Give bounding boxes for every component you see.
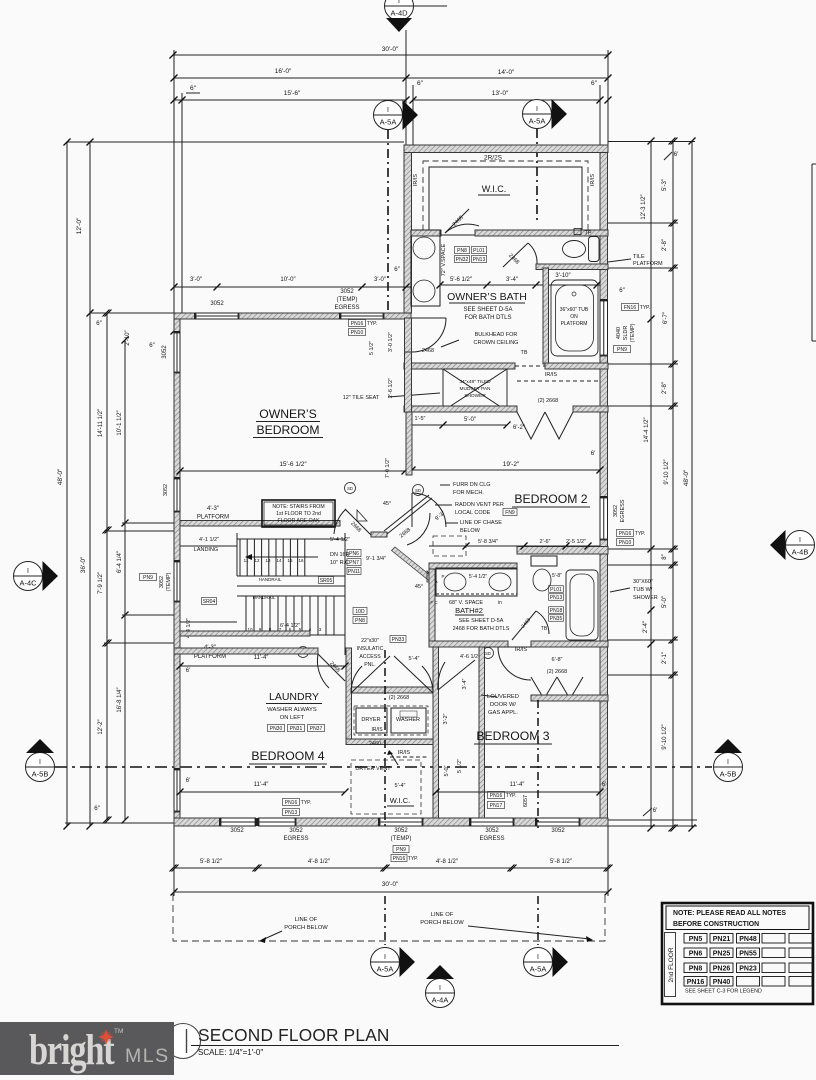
svg-text:9′-10 1/2″: 9′-10 1/2″ xyxy=(664,458,670,484)
svg-text:P: P xyxy=(441,574,444,579)
svg-text:PLATFORM: PLATFORM xyxy=(197,515,229,521)
svg-text:2′-1″: 2′-1″ xyxy=(662,651,668,664)
svg-text:EGRESS: EGRESS xyxy=(283,836,308,842)
svg-text:PORCH BELOW: PORCH BELOW xyxy=(284,925,328,931)
svg-text:TB: TB xyxy=(541,626,548,632)
svg-text:PN9: PN9 xyxy=(396,847,406,853)
svg-text:BEDROOM 3: BEDROOM 3 xyxy=(476,729,549,743)
svg-text:13′-0″: 13′-0″ xyxy=(492,90,509,97)
svg-text:12′-3 1/2″: 12′-3 1/2″ xyxy=(641,193,647,219)
svg-text:HANDRAIL: HANDRAIL xyxy=(259,577,282,582)
svg-text:IR/IS: IR/IS xyxy=(545,372,558,378)
svg-text:3′-4″: 3′-4″ xyxy=(462,678,468,689)
svg-text:EGRESS: EGRESS xyxy=(620,499,626,522)
svg-text:7′-0 1/2″: 7′-0 1/2″ xyxy=(385,458,391,478)
svg-text:3′-0 1/2″: 3′-0 1/2″ xyxy=(388,332,394,352)
svg-text:3052: 3052 xyxy=(210,301,224,307)
svg-text:SD: SD xyxy=(485,651,491,656)
svg-text:30′-0″: 30′-0″ xyxy=(382,46,399,53)
svg-text:5′-4″: 5′-4″ xyxy=(395,783,406,789)
svg-text:10″ R.C.: 10″ R.C. xyxy=(330,560,351,566)
svg-text:2′-8″: 2′-8″ xyxy=(662,238,668,251)
svg-text:3052: 3052 xyxy=(159,576,165,588)
svg-text:3052: 3052 xyxy=(340,289,354,295)
svg-text:45°: 45° xyxy=(415,584,423,590)
svg-text:5′-8″: 5′-8″ xyxy=(552,573,562,579)
svg-text:ACCESS: ACCESS xyxy=(359,654,381,660)
svg-text:A-5A: A-5A xyxy=(529,117,546,126)
svg-text:DRYER VENT: DRYER VENT xyxy=(355,766,391,772)
svg-text:TYP.: TYP. xyxy=(301,800,311,806)
svg-text:12′-2″: 12′-2″ xyxy=(98,718,104,734)
svg-text:48′-0″: 48′-0″ xyxy=(57,468,64,485)
svg-text:PN16: PN16 xyxy=(687,979,705,986)
svg-text:LINE OF: LINE OF xyxy=(295,917,318,923)
svg-text:TYP.: TYP. xyxy=(506,793,516,799)
svg-text:A-4B: A-4B xyxy=(792,548,809,557)
svg-text:OWNER’S BATH: OWNER’S BATH xyxy=(447,291,527,303)
svg-text:30″X60″: 30″X60″ xyxy=(633,579,653,585)
svg-text:5′-8 1/2″: 5′-8 1/2″ xyxy=(200,859,223,865)
svg-text:PL01: PL01 xyxy=(550,587,562,593)
svg-text:10′-0″: 10′-0″ xyxy=(280,277,296,283)
svg-text:3′-2″: 3′-2″ xyxy=(443,713,449,724)
svg-text:PN16: PN16 xyxy=(393,856,406,862)
svg-text:SD: SD xyxy=(415,488,421,493)
svg-text:2′-6 1/2″: 2′-6 1/2″ xyxy=(388,378,394,398)
svg-text:PN48: PN48 xyxy=(739,936,757,943)
svg-text:SR05: SR05 xyxy=(320,578,333,584)
svg-text:WASHER ALWAYS: WASHER ALWAYS xyxy=(267,707,317,713)
svg-text:NOTE: STAIRS FROM: NOTE: STAIRS FROM xyxy=(272,504,324,510)
svg-text:I: I xyxy=(439,985,441,992)
svg-text:TM: TM xyxy=(114,1028,123,1035)
svg-text:PN13: PN13 xyxy=(473,257,486,263)
svg-text:IR/IS: IR/IS xyxy=(515,647,528,653)
svg-text:ON LEFT: ON LEFT xyxy=(280,715,305,721)
svg-text:4′-1 1/2″: 4′-1 1/2″ xyxy=(199,537,219,543)
svg-text:in: in xyxy=(498,600,502,606)
svg-text:6″: 6″ xyxy=(417,80,424,87)
svg-text:IR/IS: IR/IS xyxy=(371,727,383,733)
svg-text:FOR MECH.: FOR MECH. xyxy=(453,490,484,496)
svg-text:2nd FLOOR: 2nd FLOOR xyxy=(668,947,675,982)
svg-text:15′-6″: 15′-6″ xyxy=(284,90,301,97)
svg-text:PN40: PN40 xyxy=(713,979,731,986)
svg-text:FN9: FN9 xyxy=(505,510,515,516)
svg-text:I: I xyxy=(39,759,41,766)
svg-text:6″: 6″ xyxy=(394,267,400,273)
svg-text:I: I xyxy=(537,954,539,961)
svg-text:WASHER: WASHER xyxy=(396,717,420,723)
svg-text:2′-10″: 2′-10″ xyxy=(125,329,131,345)
svg-text:3052: 3052 xyxy=(551,828,565,834)
svg-text:10′-1 1/2″: 10′-1 1/2″ xyxy=(117,409,123,435)
svg-text:MLS: MLS xyxy=(125,1045,170,1067)
svg-text:6″: 6″ xyxy=(94,806,100,812)
svg-text:14: 14 xyxy=(276,558,282,563)
svg-text:14′-4 1/2″: 14′-4 1/2″ xyxy=(644,416,650,442)
svg-text:IR/IS: IR/IS xyxy=(398,750,411,756)
svg-text:SD: SD xyxy=(347,486,353,491)
svg-text:2468 FOR BATH DTLS: 2468 FOR BATH DTLS xyxy=(453,626,510,632)
svg-text:PN8: PN8 xyxy=(457,248,467,254)
svg-text:SEE SHEET C-3 FOR LEGEND: SEE SHEET C-3 FOR LEGEND xyxy=(685,989,762,995)
svg-text:5′-4″: 5′-4″ xyxy=(409,656,420,662)
svg-text:SR04: SR04 xyxy=(203,599,216,605)
svg-text:PN8: PN8 xyxy=(689,966,703,973)
svg-text:LOCAL CODE: LOCAL CODE xyxy=(455,510,491,516)
svg-text:6″: 6″ xyxy=(96,321,102,327)
svg-text:13: 13 xyxy=(265,558,271,563)
svg-text:5′-0″: 5′-0″ xyxy=(464,417,477,423)
svg-text:PN17: PN17 xyxy=(490,803,503,809)
svg-text:14′-11 1/2″: 14′-11 1/2″ xyxy=(98,408,104,437)
svg-text:6′-4 1/2″: 6′-4 1/2″ xyxy=(280,623,300,629)
svg-text:ON: ON xyxy=(570,314,578,320)
svg-text:15: 15 xyxy=(287,558,293,563)
svg-text:11: 11 xyxy=(244,558,249,563)
svg-text:36″x60″ TUB: 36″x60″ TUB xyxy=(560,307,589,313)
svg-text:PN25: PN25 xyxy=(713,951,731,958)
svg-text:IR/IS: IR/IS xyxy=(590,174,596,187)
svg-text:I: I xyxy=(799,537,801,544)
svg-text:16′-8 1/4″: 16′-8 1/4″ xyxy=(117,686,123,712)
svg-text:DN 16R: DN 16R xyxy=(330,552,350,558)
svg-text:9′-1 3/4″: 9′-1 3/4″ xyxy=(366,556,386,562)
svg-text:PN10: PN10 xyxy=(351,330,364,336)
svg-text:SCALE: 1/4″=1′-0″: SCALE: 1/4″=1′-0″ xyxy=(198,1048,263,1057)
svg-text:5′-8 1/2″: 5′-8 1/2″ xyxy=(550,859,573,865)
svg-text:TUB W/: TUB W/ xyxy=(633,587,653,593)
svg-text:(2) 2668: (2) 2668 xyxy=(389,695,410,701)
svg-text:3052: 3052 xyxy=(613,505,619,517)
svg-text:PN32: PN32 xyxy=(456,257,469,263)
svg-text:19′-2″: 19′-2″ xyxy=(503,461,520,468)
svg-text:5′-0″: 5′-0″ xyxy=(662,595,668,608)
svg-text:2R/2S: 2R/2S xyxy=(484,155,503,162)
svg-text:22″x30″: 22″x30″ xyxy=(361,638,379,644)
svg-text:TYP.: TYP. xyxy=(635,531,645,537)
svg-text:OWNER’S: OWNER’S xyxy=(259,407,317,421)
svg-text:PN21: PN21 xyxy=(713,936,731,943)
svg-text:W.I.C.: W.I.C. xyxy=(482,184,507,194)
svg-text:(2) 2668: (2) 2668 xyxy=(547,669,568,675)
svg-text:PN18: PN18 xyxy=(550,608,563,614)
svg-text:PL01: PL01 xyxy=(473,248,485,254)
svg-text:PN23: PN23 xyxy=(739,966,757,973)
svg-text:BATH#2: BATH#2 xyxy=(455,606,483,615)
svg-text:A-5B: A-5B xyxy=(720,770,737,779)
svg-text:8″: 8″ xyxy=(662,553,668,559)
svg-text:2468: 2468 xyxy=(422,348,434,354)
svg-text:6′-7″: 6′-7″ xyxy=(663,311,669,324)
svg-text:SHOWER: SHOWER xyxy=(464,393,486,399)
svg-text:3052: 3052 xyxy=(163,484,169,496)
svg-text:DOOR W/: DOOR W/ xyxy=(490,702,516,708)
svg-text:NOTE: PLEASE READ ALL NOTE: NOTE: PLEASE READ ALL NOTES xyxy=(673,910,786,917)
svg-text:I: I xyxy=(536,106,538,113)
svg-text:RADON VENT PER: RADON VENT PER xyxy=(455,502,504,508)
svg-text:PN13: PN13 xyxy=(285,810,298,816)
svg-text:6′-2″: 6′-2″ xyxy=(513,425,526,431)
svg-text:PN35: PN35 xyxy=(550,616,563,622)
svg-text:TYP.: TYP. xyxy=(367,321,377,327)
svg-text:A-5A: A-5A xyxy=(380,118,397,127)
svg-text:2′-5 1/2″: 2′-5 1/2″ xyxy=(566,539,586,545)
svg-text:PN9: PN9 xyxy=(617,347,627,353)
svg-text:FN16: FN16 xyxy=(624,305,636,311)
svg-text:PN5: PN5 xyxy=(689,936,703,943)
svg-text:PN10: PN10 xyxy=(619,540,632,546)
svg-text:4′-3″: 4′-3″ xyxy=(207,506,220,512)
svg-text:GAS APPL.: GAS APPL. xyxy=(488,710,518,716)
svg-text:LOUVERED: LOUVERED xyxy=(487,694,519,700)
svg-text:SLDR: SLDR xyxy=(623,326,629,341)
svg-text:6″: 6″ xyxy=(190,85,197,92)
svg-text:TYP.: TYP. xyxy=(408,856,418,862)
svg-text:(TEMP): (TEMP) xyxy=(391,836,412,842)
svg-text:2460: 2460 xyxy=(369,741,381,747)
svg-text:72″ V.SPACE: 72″ V.SPACE xyxy=(441,243,447,276)
svg-text:6′-4 1/4″: 6′-4 1/4″ xyxy=(117,550,123,573)
svg-text:A-4A: A-4A xyxy=(432,996,449,1005)
svg-text:I: I xyxy=(387,107,389,114)
svg-text:2′-4″: 2′-4″ xyxy=(643,620,649,633)
svg-text:3′-4″: 3′-4″ xyxy=(506,277,519,283)
svg-text:PN13: PN13 xyxy=(550,595,563,601)
svg-text:F C: F C xyxy=(430,600,438,605)
svg-text:15′-6 1/2″: 15′-6 1/2″ xyxy=(279,461,307,468)
svg-text:PN7: PN7 xyxy=(349,560,359,566)
svg-text:INSULATIC: INSULATIC xyxy=(357,646,384,652)
svg-text:PN30: PN30 xyxy=(270,726,283,732)
svg-text:(TEMP): (TEMP) xyxy=(166,572,172,591)
svg-text:A-4C: A-4C xyxy=(19,579,37,588)
svg-text:1st FLOOR TO 2nd: 1st FLOOR TO 2nd xyxy=(276,511,321,517)
svg-text:PLATFORM: PLATFORM xyxy=(633,261,663,267)
svg-text:5′-4 1/2″: 5′-4 1/2″ xyxy=(330,537,350,543)
svg-text:SEE SHEET D-5A: SEE SHEET D-5A xyxy=(464,307,513,313)
svg-text:48′-0″: 48′-0″ xyxy=(683,469,690,486)
svg-text:9′-10 1/2″: 9′-10 1/2″ xyxy=(662,723,668,749)
svg-text:FOR BATH DTLS: FOR BATH DTLS xyxy=(465,315,512,321)
svg-text:6″: 6″ xyxy=(591,80,598,87)
svg-text:3052: 3052 xyxy=(485,828,499,834)
svg-text:I: I xyxy=(384,954,386,961)
svg-text:16′-0″: 16′-0″ xyxy=(275,68,292,75)
svg-text:5′-8 3/4″: 5′-8 3/4″ xyxy=(478,539,498,545)
svg-text:4′-6 1/2″: 4′-6 1/2″ xyxy=(460,654,480,660)
svg-text:TYP.: TYP. xyxy=(640,305,650,311)
svg-text:PN8: PN8 xyxy=(355,618,365,624)
svg-text:TILE: TILE xyxy=(633,254,645,260)
svg-text:PLATFORM: PLATFORM xyxy=(561,321,588,327)
svg-text:PN16: PN16 xyxy=(285,800,298,806)
svg-text:12″ TILE SEAT: 12″ TILE SEAT xyxy=(343,395,380,401)
svg-text:PN9: PN9 xyxy=(143,575,153,581)
svg-text:(TEMP): (TEMP) xyxy=(337,297,358,303)
svg-text:SECOND FLOOR PLAN: SECOND FLOOR PLAN xyxy=(198,1025,390,1045)
svg-text:EGRESS: EGRESS xyxy=(479,836,504,842)
svg-text:36′-0″: 36′-0″ xyxy=(80,556,87,573)
svg-text:PN11: PN11 xyxy=(348,569,360,575)
svg-text:6″: 6″ xyxy=(619,288,625,294)
svg-text:PNL.: PNL. xyxy=(364,662,376,668)
svg-text:BEFORE CONSTRUCTION: BEFORE CONSTRUCTION xyxy=(673,921,759,928)
svg-text:2′-6″: 2′-6″ xyxy=(540,539,551,545)
svg-text:FURR DN CLG: FURR DN CLG xyxy=(453,482,491,488)
svg-text:11′-4″: 11′-4″ xyxy=(254,782,270,788)
svg-text:5 1/2″: 5 1/2″ xyxy=(457,759,463,773)
svg-text:5 1/2″: 5 1/2″ xyxy=(369,341,375,355)
svg-text:PN55: PN55 xyxy=(739,951,757,958)
svg-text:A-5A: A-5A xyxy=(530,965,547,974)
svg-text:PN16: PN16 xyxy=(490,793,503,799)
svg-text:CROWN CEILING: CROWN CEILING xyxy=(474,340,519,346)
svg-text:A-5A: A-5A xyxy=(377,965,394,974)
svg-text:PN33: PN33 xyxy=(392,637,405,643)
svg-text:12′-0″: 12′-0″ xyxy=(76,217,83,234)
svg-text:3′-0″: 3′-0″ xyxy=(190,277,203,283)
svg-text:(2) 2668: (2) 2668 xyxy=(538,398,559,404)
svg-text:PN6: PN6 xyxy=(689,951,703,958)
svg-text:A-4D: A-4D xyxy=(390,9,408,18)
svg-text:5′-3″: 5′-3″ xyxy=(662,178,668,191)
svg-text:4′-8 1/2″: 4′-8 1/2″ xyxy=(436,859,459,865)
svg-text:3052: 3052 xyxy=(394,828,408,834)
svg-text:5′-6 1/2″: 5′-6 1/2″ xyxy=(450,277,473,283)
svg-text:TB: TB xyxy=(520,350,527,356)
svg-text:16: 16 xyxy=(298,558,304,563)
svg-text:5′-0″: 5′-0″ xyxy=(444,765,450,776)
svg-text:PLATFORM: PLATFORM xyxy=(194,654,226,660)
svg-text:4040: 4040 xyxy=(616,327,622,339)
svg-text:IR/IS: IR/IS xyxy=(413,174,419,187)
svg-text:3052: 3052 xyxy=(162,345,168,359)
svg-text:BEDROOM: BEDROOM xyxy=(257,423,320,437)
svg-text:EGRESS: EGRESS xyxy=(334,305,359,311)
svg-text:LINE OF: LINE OF xyxy=(431,912,454,918)
svg-text:PN16: PN16 xyxy=(619,531,632,537)
svg-text:PN31: PN31 xyxy=(290,726,303,732)
svg-text:11′-4″: 11′-4″ xyxy=(510,782,526,788)
svg-text:BELOW: BELOW xyxy=(460,528,481,534)
svg-text:I: I xyxy=(27,568,29,575)
svg-text:3′-0″: 3′-0″ xyxy=(374,277,387,283)
svg-text:5′-4 1/2″: 5′-4 1/2″ xyxy=(469,574,488,580)
svg-text:14′-0″: 14′-0″ xyxy=(498,69,515,76)
svg-text:45°: 45° xyxy=(383,501,391,507)
svg-text:2′-8″: 2′-8″ xyxy=(662,381,668,394)
svg-text:PORCH BELOW: PORCH BELOW xyxy=(420,920,464,926)
svg-text:LANDING: LANDING xyxy=(194,547,218,553)
svg-text:BEDROOM 4: BEDROOM 4 xyxy=(251,749,324,763)
svg-text:PN26: PN26 xyxy=(713,966,731,973)
svg-text:SHOWER: SHOWER xyxy=(633,595,658,601)
svg-text:A-5B: A-5B xyxy=(32,770,49,779)
svg-text:DRYER: DRYER xyxy=(361,717,380,723)
svg-text:TP: TP xyxy=(584,231,591,237)
svg-text:LINE OF CHASE: LINE OF CHASE xyxy=(460,520,502,526)
svg-text:BULKHEAD FOR: BULKHEAD FOR xyxy=(475,332,518,338)
svg-text:10D: 10D xyxy=(355,609,365,615)
svg-text:7′-9 1/2″: 7′-9 1/2″ xyxy=(98,571,104,594)
svg-text:W.I.C.: W.I.C. xyxy=(390,796,410,805)
svg-text:30′-0″: 30′-0″ xyxy=(382,881,399,888)
svg-text:1′-5″: 1′-5″ xyxy=(415,416,426,422)
svg-text:PN6: PN6 xyxy=(349,551,359,557)
svg-text:I: I xyxy=(398,0,400,5)
svg-text:PN16: PN16 xyxy=(351,321,364,327)
svg-text:I: I xyxy=(727,759,729,766)
svg-text:3′-10″: 3′-10″ xyxy=(555,273,571,279)
svg-text:12: 12 xyxy=(254,558,260,563)
svg-text:34″x48″ TILED: 34″x48″ TILED xyxy=(459,379,491,385)
svg-text:FLOOR ARE OAK: FLOOR ARE OAK xyxy=(277,518,320,524)
svg-text:3052: 3052 xyxy=(289,828,303,834)
svg-text:PN37: PN37 xyxy=(310,726,323,732)
svg-text:11′-4″: 11′-4″ xyxy=(254,655,270,661)
svg-text:4′-8 1/2″: 4′-8 1/2″ xyxy=(308,859,331,865)
svg-text:6057: 6057 xyxy=(523,795,529,807)
svg-text:(TEMP): (TEMP) xyxy=(630,323,636,342)
svg-text:SEE SHEET D-5A: SEE SHEET D-5A xyxy=(459,618,504,624)
svg-text:MUDSET PAN: MUDSET PAN xyxy=(459,386,491,392)
svg-text:6′-8″: 6′-8″ xyxy=(552,657,563,663)
svg-text:BEDROOM 2: BEDROOM 2 xyxy=(514,492,587,506)
svg-text:3052: 3052 xyxy=(230,828,244,834)
svg-text:LAUNDRY: LAUNDRY xyxy=(269,691,319,703)
svg-text:6″: 6″ xyxy=(149,343,155,349)
